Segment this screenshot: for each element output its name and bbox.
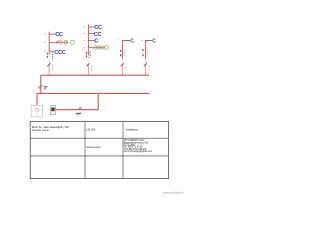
- node D1 number tick: [141, 40, 142, 41]
- wire: supply line horizontal: [37, 92, 150, 94]
- label: breaker D rating (gray dotted right of bus): [148, 66, 150, 71]
- label: conduit circuit A (dark dotted right of bus): [52, 52, 54, 60]
- label: differential rating smudge: [76, 113, 81, 114]
- svg-text:C: C: [152, 38, 156, 44]
- main switch box Q1: [50, 106, 55, 115]
- wire: circuit A bus below breaker: [48, 66, 50, 75]
- socket symbol B4 circle 2: [97, 46, 100, 49]
- breaker D slash: [144, 63, 147, 66]
- wire: circuit C bus and top branch: [123, 41, 131, 60]
- node A2 number tick: [44, 42, 45, 43]
- main switch glyph: [51, 108, 55, 112]
- wire: branch A3 stub: [49, 50, 54, 52]
- breaker on output dot: [79, 108, 80, 109]
- socket symbol B4 circle 3: [101, 46, 104, 49]
- table row divider 1: [30, 137, 168, 139]
- wire: branch B2 stub: [88, 33, 94, 35]
- wire: branch B4: [88, 47, 104, 49]
- wire: branch A1 stub: [49, 33, 55, 35]
- label: breaker B rating (gray dotted right of bus): [90, 66, 92, 72]
- socket symbol B4 circle 1: [94, 46, 97, 49]
- breaker A slash: [47, 63, 50, 66]
- wire: circuit C bus below breaker: [122, 66, 124, 75]
- wire: branch B1 stub: [88, 26, 94, 28]
- breaker C slash: [121, 63, 124, 66]
- svg-text:www.archifacile.fr: www.archifacile.fr: [163, 190, 184, 194]
- wire: circuit A bus: [48, 32, 50, 55]
- svg-text:info.vrcompany@gmail.com: info.vrcompany@gmail.com: [124, 150, 152, 153]
- switch tick A2: [56, 41, 58, 44]
- label: cable spec circuit B (dark dashes left of bus): [86, 52, 88, 58]
- breaker main dot: [38, 86, 39, 87]
- node A1 number tick: [44, 34, 45, 35]
- breaker on output slash: [79, 107, 82, 110]
- node B3 number tick: [84, 40, 85, 41]
- svg-text:CC: CC: [94, 25, 102, 31]
- wire: circuit B bus: [87, 24, 89, 55]
- label: conduit circuit B (dark dotted right of bus): [89, 51, 91, 58]
- svg-text:C: C: [130, 38, 134, 44]
- wire: main switch drop: [40, 75, 42, 93]
- svg-text:schema signe: schema signe: [86, 145, 101, 149]
- wire: circuit D bus gap (pale): [145, 59, 147, 63]
- svg-text:CC: CC: [55, 32, 63, 38]
- svg-text:CCC: CCC: [54, 50, 65, 56]
- label: cable spec circuit C (dark dashes left of bus): [120, 50, 122, 57]
- label: cable spec circuit D (dark dashes left of bus): [142, 49, 144, 56]
- wire: circuit C bus gap (pale): [122, 59, 124, 63]
- wire: branch B3 stub: [88, 40, 94, 42]
- label: main breaker rating smudge: [44, 86, 48, 87]
- wire: circuit D bus and top branch: [146, 41, 153, 60]
- meter box M1: [31, 105, 42, 117]
- node B1 number tick: [84, 26, 85, 27]
- svg-text:C: C: [94, 39, 98, 45]
- socket symbol A2 circle 2: [64, 40, 68, 44]
- label: conduit circuit D (gray dotted right of bus): [147, 50, 149, 56]
- breaker B slash: [87, 63, 90, 66]
- svg-text:1.08.2025: 1.08.2025: [86, 128, 96, 132]
- label: cable spec circuit A (dark dashes left of bus): [46, 53, 48, 59]
- wire: circuit B bus gap (pale): [87, 55, 89, 63]
- svg-text:CC: CC: [94, 32, 102, 38]
- socket symbol A2 circle 1: [59, 40, 63, 44]
- node B2 number tick: [84, 33, 85, 34]
- meter symbol: [35, 108, 38, 111]
- label: breaker C rating (gray dotted right of bus): [125, 67, 127, 72]
- wire: switch output line: [56, 109, 99, 111]
- breaker main slash: [39, 85, 43, 89]
- earth symbol B4 green circle: [105, 46, 109, 50]
- earth symbol A2 green circle: [70, 40, 74, 44]
- table column divider 2: [122, 122, 124, 179]
- wire: main distribution bus bar: [41, 74, 150, 76]
- label: tick left of branch C: [118, 39, 120, 41]
- table column divider 1: [84, 122, 86, 179]
- node B4 number tick: [84, 47, 85, 48]
- label: breaker A rating (gray dotted right of bus): [52, 64, 54, 71]
- svg-text:Annette Somn: Annette Somn: [32, 128, 49, 132]
- wire: circuit A bus gap (pale): [48, 54, 50, 63]
- node A3 number tick: [44, 51, 45, 52]
- wire: circuit B bus below breaker: [87, 66, 89, 75]
- table row divider 2: [30, 155, 168, 157]
- label: conduit circuit C (gray dotted right of bus): [124, 50, 126, 57]
- svg-text:Installateur: Installateur: [126, 127, 138, 131]
- wire: branch A2: [49, 41, 68, 43]
- wire: riser to supply line: [97, 93, 99, 109]
- wire: meter drop: [36, 93, 38, 108]
- title block table frame: [30, 122, 168, 179]
- wire: circuit D bus below breaker: [145, 66, 147, 75]
